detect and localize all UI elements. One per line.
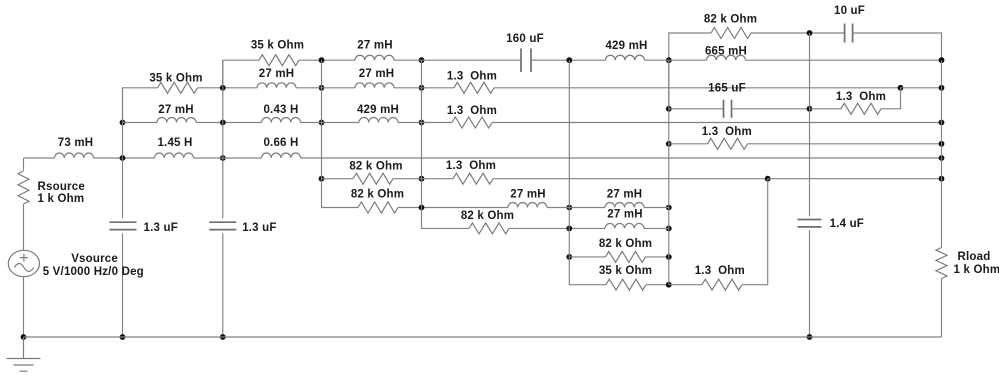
node node left rail bbox=[21, 334, 27, 340]
voltage source Vsource bbox=[8, 250, 39, 276]
resistor R3 35 k Ohm bbox=[158, 82, 198, 93]
node node col1 row-E bbox=[120, 120, 126, 126]
wire row-E seg5 bbox=[492, 122, 942, 124]
resistor R14 1.3 Ohm bbox=[702, 279, 742, 290]
resistor R8 82 k Ohm bbox=[353, 173, 393, 184]
wire row-F seg2 bbox=[748, 143, 942, 145]
wire row-E seg4 bbox=[398, 122, 452, 124]
svg-text:429 mH: 429 mH bbox=[357, 104, 399, 116]
wire row-D seg1 bbox=[669, 108, 724, 110]
wire row-I seg1 bbox=[398, 207, 508, 209]
wire row-B seg5 bbox=[746, 59, 942, 61]
inductor L12 27 mH bbox=[508, 203, 547, 208]
wire row-I corner col3 bbox=[322, 179, 359, 208]
node node col4 row-C bbox=[419, 85, 425, 91]
svg-text:35 k Ohm: 35 k Ohm bbox=[149, 73, 202, 85]
svg-text:1.45 H: 1.45 H bbox=[157, 137, 192, 149]
wire row-C seg1 bbox=[198, 87, 258, 89]
wire row-L corner col5 bbox=[569, 257, 606, 285]
wire bus col5 bbox=[568, 60, 570, 257]
node node col6 row-J bbox=[666, 226, 672, 232]
node node col1 row-G bbox=[120, 155, 126, 161]
node node col10 row-C bbox=[939, 85, 945, 91]
wire row-I seg2 bbox=[547, 207, 605, 209]
wire row-L seg2 bbox=[669, 284, 702, 286]
wire row-A left: node5 bus top to 82k bbox=[669, 33, 711, 109]
node node col4 row-I bbox=[419, 205, 425, 211]
wire row-E seg3 bbox=[301, 122, 360, 124]
wire row-J corner col4 bbox=[422, 208, 470, 229]
wire row-G left edge corner bbox=[24, 157, 55, 159]
node node col10 row-H bbox=[939, 176, 945, 182]
svg-text:1.3 uF: 1.3 uF bbox=[144, 222, 178, 234]
resistor R2 35 k Ohm bbox=[259, 55, 299, 66]
node node col8 rail bbox=[807, 334, 813, 340]
wire left edge top bbox=[23, 158, 25, 171]
inductor L14 27 mH bbox=[605, 223, 644, 228]
wire row-A cap to right bus corner bbox=[853, 33, 942, 60]
ground symbol bbox=[7, 337, 41, 371]
node node col3 row-C bbox=[319, 85, 325, 91]
svg-text:27 mH: 27 mH bbox=[259, 68, 295, 80]
wire row-C seg4 bbox=[494, 87, 901, 89]
wire row-D jog up bbox=[881, 88, 901, 109]
wire row-G seg2 bbox=[194, 157, 262, 159]
inductor L8 429 mH bbox=[359, 118, 398, 123]
svg-text:27 mH: 27 mH bbox=[359, 68, 395, 80]
wire row-C corner at col1 bbox=[123, 88, 158, 123]
wire bus col6 upper bbox=[668, 60, 670, 109]
svg-text:1.3 Ohm: 1.3 Ohm bbox=[447, 71, 497, 83]
wire row-K seg1 bbox=[569, 256, 605, 258]
wire left edge bottom bbox=[23, 277, 25, 337]
wire bus col1 upper bbox=[122, 88, 124, 219]
svg-text:1.4 uF: 1.4 uF bbox=[830, 218, 864, 230]
resistor R13 35 k Ohm bbox=[606, 279, 646, 290]
svg-text:82 k Ohm: 82 k Ohm bbox=[349, 161, 402, 173]
svg-text:0.43 H: 0.43 H bbox=[263, 104, 298, 116]
svg-text:1 k Ohm: 1 k Ohm bbox=[954, 264, 999, 276]
resistor R4 1.3 Ohm bbox=[454, 82, 494, 93]
wire row-C seg5 bbox=[901, 87, 942, 89]
resistor R9 1.3 Ohm bbox=[453, 173, 493, 184]
inductor L7 0.43 H bbox=[262, 118, 301, 123]
resistor Rload 1 k Ohm bbox=[936, 248, 947, 279]
node node col3 row-E bbox=[319, 120, 325, 126]
node node col6 row-B bbox=[666, 57, 672, 63]
svg-text:1.3 Ohm: 1.3 Ohm bbox=[446, 160, 496, 172]
svg-text:5 V/1000 Hz/0 Deg: 5 V/1000 Hz/0 Deg bbox=[43, 266, 144, 278]
node row-A junction bbox=[807, 30, 813, 36]
svg-text:165 uF: 165 uF bbox=[708, 83, 746, 95]
wire row-I seg3 bbox=[644, 207, 669, 209]
wire row-L seg1 bbox=[646, 284, 669, 286]
wire row-D seg3 bbox=[810, 108, 842, 110]
resistor Rsource 1 k Ohm bbox=[18, 171, 29, 204]
wire row-B seg3 bbox=[531, 59, 606, 61]
wire bus col8 lower bbox=[809, 230, 811, 337]
node node col10 row-G bbox=[939, 155, 945, 161]
node node col2 row-G bbox=[220, 155, 226, 161]
svg-text:35 k Ohm: 35 k Ohm bbox=[599, 265, 652, 277]
wire row-B seg2 bbox=[394, 59, 521, 61]
svg-text:1.3 uF: 1.3 uF bbox=[242, 222, 276, 234]
wire row-E seg1 bbox=[123, 122, 158, 124]
wire row-C seg3 bbox=[394, 87, 454, 89]
svg-text:73 mH: 73 mH bbox=[58, 137, 94, 149]
wire bus col2 upper bbox=[222, 60, 224, 218]
svg-text:82 k Ohm: 82 k Ohm bbox=[704, 14, 757, 26]
inductor L11 0.66 H bbox=[262, 153, 301, 158]
resistor R15 82 k Ohm bbox=[711, 28, 751, 39]
resistor R10 82 k Ohm bbox=[358, 202, 398, 213]
wire right bus lower bbox=[941, 279, 943, 338]
wire row-F seg1 bbox=[669, 143, 708, 145]
node node col6 row-D bbox=[666, 106, 672, 112]
svg-text:Rsource: Rsource bbox=[38, 181, 85, 193]
svg-text:10 uF: 10 uF bbox=[834, 5, 865, 17]
node node col5 row-J bbox=[566, 226, 572, 232]
resistor R11 82 k Ohm bbox=[469, 223, 509, 234]
svg-text:Rload: Rload bbox=[958, 251, 991, 263]
svg-text:35 k Ohm: 35 k Ohm bbox=[251, 40, 304, 52]
svg-text:1.3 Ohm: 1.3 Ohm bbox=[702, 126, 752, 138]
capacitor C4 1.3 uF bbox=[110, 221, 137, 223]
resistor R6 1.3 Ohm bbox=[452, 117, 492, 128]
node node col5 row-K bbox=[566, 254, 572, 260]
inductor L10 1.45 H bbox=[155, 153, 194, 158]
wire row-H seg2 bbox=[393, 178, 453, 180]
inductor L6 27 mH bbox=[157, 118, 196, 123]
wire bus col8 mid bbox=[809, 109, 811, 217]
node node col1 rail bbox=[120, 334, 126, 340]
node node col10 row-E bbox=[939, 120, 945, 126]
svg-text:27 mH: 27 mH bbox=[510, 189, 546, 201]
wire row-G seg1 bbox=[94, 157, 155, 159]
svg-text:1.3 Ohm: 1.3 Ohm bbox=[695, 265, 745, 277]
svg-text:82 k Ohm: 82 k Ohm bbox=[351, 189, 404, 201]
node node col6 row-L bbox=[666, 282, 672, 288]
wire row-H seg4 bbox=[768, 178, 942, 180]
svg-text:1 k Ohm: 1 k Ohm bbox=[38, 193, 85, 205]
svg-text:0.66 H: 0.66 H bbox=[263, 137, 298, 149]
svg-text:1.3 Ohm: 1.3 Ohm bbox=[447, 105, 497, 117]
svg-text:160 uF: 160 uF bbox=[506, 33, 544, 45]
svg-text:665 mH: 665 mH bbox=[705, 46, 747, 58]
wire row-K seg2 bbox=[646, 256, 669, 258]
inductor L2 429 mH bbox=[606, 55, 645, 60]
wire bus col1 lower bbox=[122, 233, 124, 337]
resistor R12 82 k Ohm bbox=[606, 251, 646, 262]
inductor L13 27 mH bbox=[605, 203, 644, 208]
node node col4 row-B bbox=[419, 57, 425, 63]
wire bus col4 upper bbox=[421, 60, 423, 207]
wire row-H seg1 bbox=[322, 178, 354, 180]
capacitor C3 165 uF bbox=[723, 100, 725, 118]
wire bus col6 lower bbox=[668, 208, 670, 285]
node node col3 row-B bbox=[319, 57, 325, 63]
capacitor C5 1.3 uF bbox=[209, 221, 236, 223]
wire row-H seg3 bbox=[493, 178, 768, 180]
wire row-B seg4 bbox=[645, 59, 707, 61]
wire bottom rail bbox=[24, 336, 942, 338]
resistor R7 1.3 Ohm bbox=[708, 138, 748, 149]
wire bus col8 upper bbox=[809, 33, 811, 109]
node node col2 rail bbox=[220, 334, 226, 340]
wire left edge mid bbox=[23, 204, 25, 250]
node node col3 row-H bbox=[319, 176, 325, 182]
node node col8 row-D bbox=[807, 106, 813, 112]
wire row-J seg1 bbox=[509, 227, 605, 229]
inductor L5 27 mH bbox=[355, 83, 394, 88]
node node col6 row-I bbox=[666, 205, 672, 211]
inductor L4 27 mH bbox=[257, 83, 296, 88]
resistor R5 1.3 Ohm bbox=[841, 103, 881, 114]
wire row-A 82k to junction bbox=[751, 32, 845, 34]
node node col9 row-C bbox=[898, 85, 904, 91]
node node col2 row-C bbox=[220, 85, 226, 91]
svg-text:82 k Ohm: 82 k Ohm bbox=[461, 210, 514, 222]
node node col5 row-B bbox=[566, 57, 572, 63]
node node col5 row-I bbox=[566, 205, 572, 211]
capacitor C1 10 uF bbox=[844, 24, 846, 43]
inductor L9 73 mH bbox=[55, 153, 94, 158]
node node col10 row-B bbox=[939, 57, 945, 63]
svg-text:27 mH: 27 mH bbox=[607, 189, 643, 201]
svg-text:82 k Ohm: 82 k Ohm bbox=[599, 238, 652, 250]
wire row-C seg2 bbox=[296, 87, 355, 89]
wire bus col2 lower bbox=[222, 233, 224, 337]
wire row-J seg2 bbox=[644, 227, 669, 229]
node node col4 row-E bbox=[419, 120, 425, 126]
wire bus col3 upper bbox=[321, 60, 323, 179]
wire row-B seg bbox=[299, 59, 355, 61]
node node col10 row-F bbox=[939, 141, 945, 147]
svg-text:27 mH: 27 mH bbox=[357, 40, 393, 52]
svg-text:27 mH: 27 mH bbox=[607, 209, 643, 221]
capacitor C6 1.4 uF bbox=[798, 219, 822, 221]
inductor L1 27 mH bbox=[355, 55, 394, 60]
wire row-G seg3 bbox=[301, 157, 942, 159]
capacitor C2 160 uF bbox=[520, 48, 522, 72]
node node col7 row-H bbox=[765, 176, 771, 182]
node node col6 row-K bbox=[666, 254, 672, 260]
inductor L3 665 mH bbox=[707, 55, 746, 60]
node node col6 row-F bbox=[666, 141, 672, 147]
wire row-B corner at col2 bbox=[223, 60, 259, 88]
svg-text:27 mH: 27 mH bbox=[158, 104, 194, 116]
wire bus col6 mid bbox=[668, 109, 670, 208]
wire row-D seg2 bbox=[732, 108, 810, 110]
svg-text:Vsource: Vsource bbox=[71, 253, 118, 265]
svg-text:1.3 Ohm: 1.3 Ohm bbox=[836, 91, 886, 103]
node node col2 row-E bbox=[220, 120, 226, 126]
svg-text:429 mH: 429 mH bbox=[605, 40, 647, 52]
wire row-E seg2 bbox=[196, 122, 262, 124]
wire row-L corner col7 up bbox=[742, 179, 768, 285]
node node col4 row-H bbox=[419, 176, 425, 182]
wire right bus upper bbox=[941, 60, 943, 248]
